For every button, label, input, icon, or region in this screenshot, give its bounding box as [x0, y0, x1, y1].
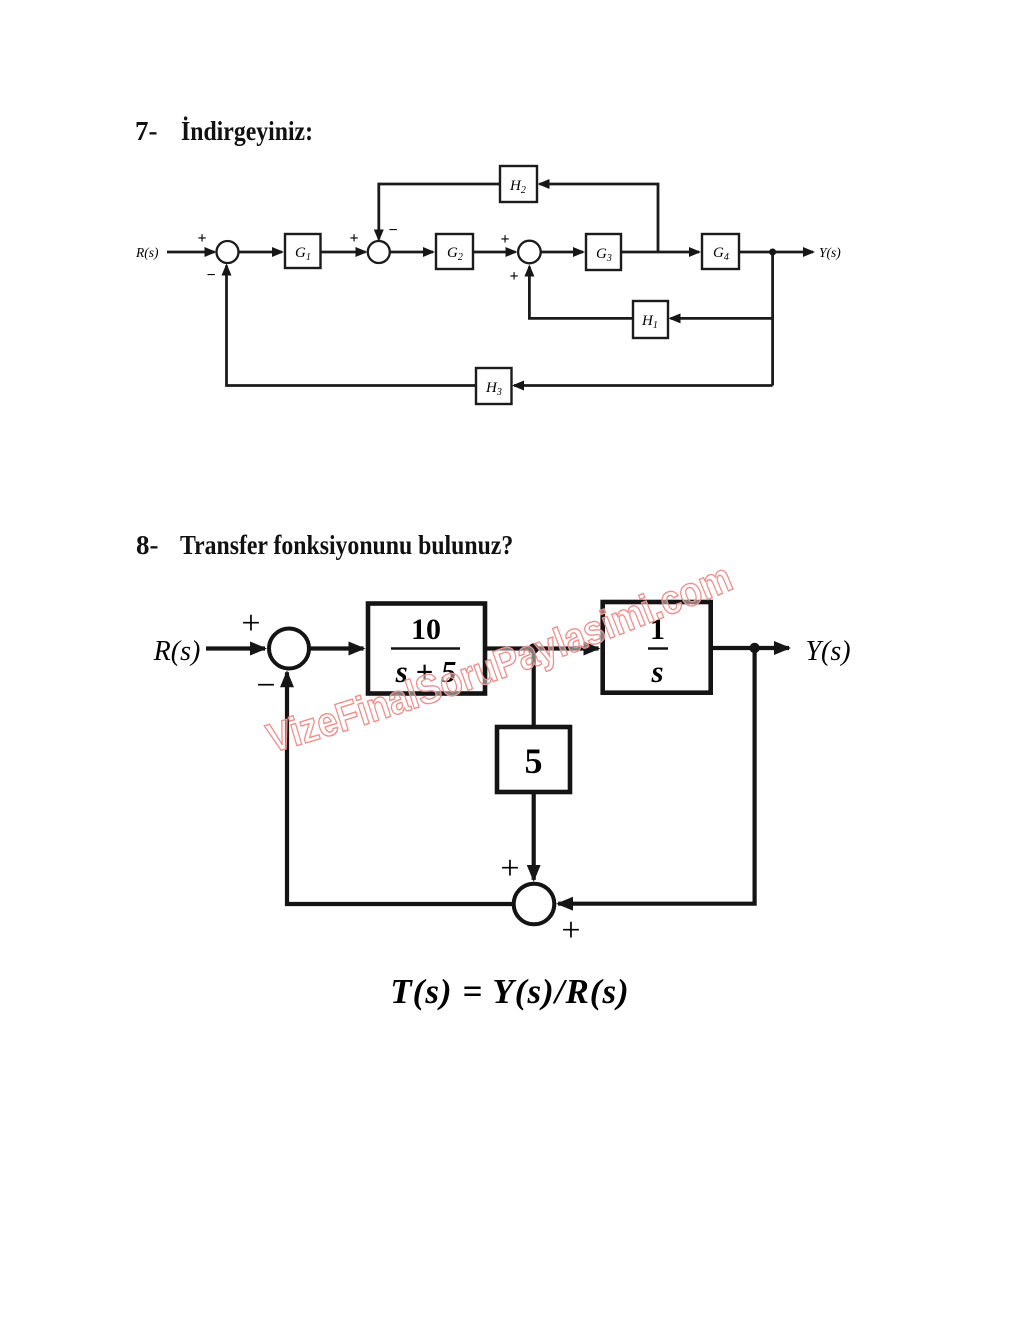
- wire G4 to Y(s): [739, 251, 813, 254]
- svg-text:R(s): R(s): [153, 636, 201, 667]
- wire junction down into block 5: [532, 649, 536, 728]
- node R(s) input wire: [206, 646, 265, 650]
- block 10/(s+5): [368, 604, 485, 694]
- wire H1 out up into sum3: [529, 267, 633, 319]
- block G3: [586, 234, 621, 270]
- svg-text:5: 5: [525, 741, 543, 781]
- wire right feedback down and into bottom sum: [558, 648, 755, 904]
- svg-text:H3: H3: [485, 380, 502, 398]
- svg-text:+: +: [509, 268, 518, 285]
- wire G3 to G4 with junction at 658: [621, 251, 699, 254]
- svg-text:G2: G2: [447, 245, 463, 263]
- wire H3 out up into sum1: [227, 266, 477, 386]
- node junction dot after block1: [529, 643, 539, 653]
- svg-text:+: +: [500, 231, 509, 248]
- node R(s) input wire: [167, 251, 215, 254]
- svg-text:+: +: [561, 912, 580, 949]
- wire block2 out to Y(s): [711, 646, 789, 650]
- wire H2 out down into sum2: [379, 184, 500, 240]
- summing junction S1: [217, 241, 239, 263]
- wire sum1 to G1: [238, 251, 282, 254]
- wire to H3 input: [514, 384, 773, 387]
- svg-text:−: −: [206, 267, 215, 284]
- svg-text:H1: H1: [641, 313, 658, 331]
- svg-text:−: −: [388, 222, 397, 239]
- svg-text:H2: H2: [509, 178, 526, 196]
- node output junction dot: [769, 249, 776, 256]
- svg-text:+: +: [349, 230, 358, 247]
- svg-text:−: −: [256, 667, 275, 704]
- wire to H1 input: [671, 317, 773, 320]
- svg-text:s: s: [650, 654, 663, 689]
- block 1/s: [603, 602, 711, 693]
- svg-text:+: +: [241, 605, 260, 642]
- watermark VizeFinalSoruPaylasimi.com: [272, 586, 740, 753]
- svg-text:G1: G1: [295, 245, 311, 263]
- heading question 8: [136, 530, 558, 561]
- wire sum2 to G2: [389, 251, 433, 254]
- summing junction S2: [368, 241, 390, 263]
- svg-text:Y(s): Y(s): [805, 636, 850, 667]
- block G2: [436, 234, 473, 269]
- svg-text:Y(s): Y(s): [819, 245, 841, 260]
- heading question 7: [135, 116, 331, 147]
- block H3: [476, 368, 512, 404]
- svg-text:10: 10: [411, 613, 441, 646]
- wire tap after G3 up to H2: [540, 184, 659, 252]
- svg-text:G4: G4: [713, 245, 729, 263]
- svg-text:+: +: [197, 230, 206, 247]
- svg-text:VizeFinalSoruPaylasimi.com: VizeFinalSoruPaylasimi.com: [261, 554, 738, 762]
- block H1: [633, 301, 668, 338]
- wire G2 to sum3: [473, 251, 516, 254]
- wire sum3 to G3: [540, 251, 583, 254]
- block H2: [500, 166, 537, 202]
- wire sum to block 10/(s+5): [309, 646, 364, 650]
- wire bottom sum left and up into top sum: [287, 672, 514, 904]
- wire output junction down (feeds H1 and H3): [771, 252, 774, 386]
- svg-text:+: +: [500, 850, 519, 887]
- summing junction S3: [518, 241, 541, 264]
- wire G1 to sum2: [321, 251, 366, 254]
- svg-text:G3: G3: [596, 246, 612, 264]
- summing junction bottom: [514, 884, 555, 925]
- block G4: [702, 234, 739, 269]
- node junction dot after block2: [749, 643, 759, 653]
- fraction bar in block2: [648, 647, 668, 650]
- block G1: [285, 234, 321, 268]
- svg-text:T(s) = Y(s)/R(s): T(s) = Y(s)/R(s): [390, 972, 629, 1011]
- block 5: [497, 727, 570, 792]
- summing junction top: [269, 629, 309, 669]
- wire block1 to block 1/s with junction: [485, 646, 599, 650]
- svg-text:R(s): R(s): [135, 245, 159, 260]
- wire block 5 down into bottom sum: [532, 792, 536, 880]
- fraction bar in block1: [391, 647, 460, 650]
